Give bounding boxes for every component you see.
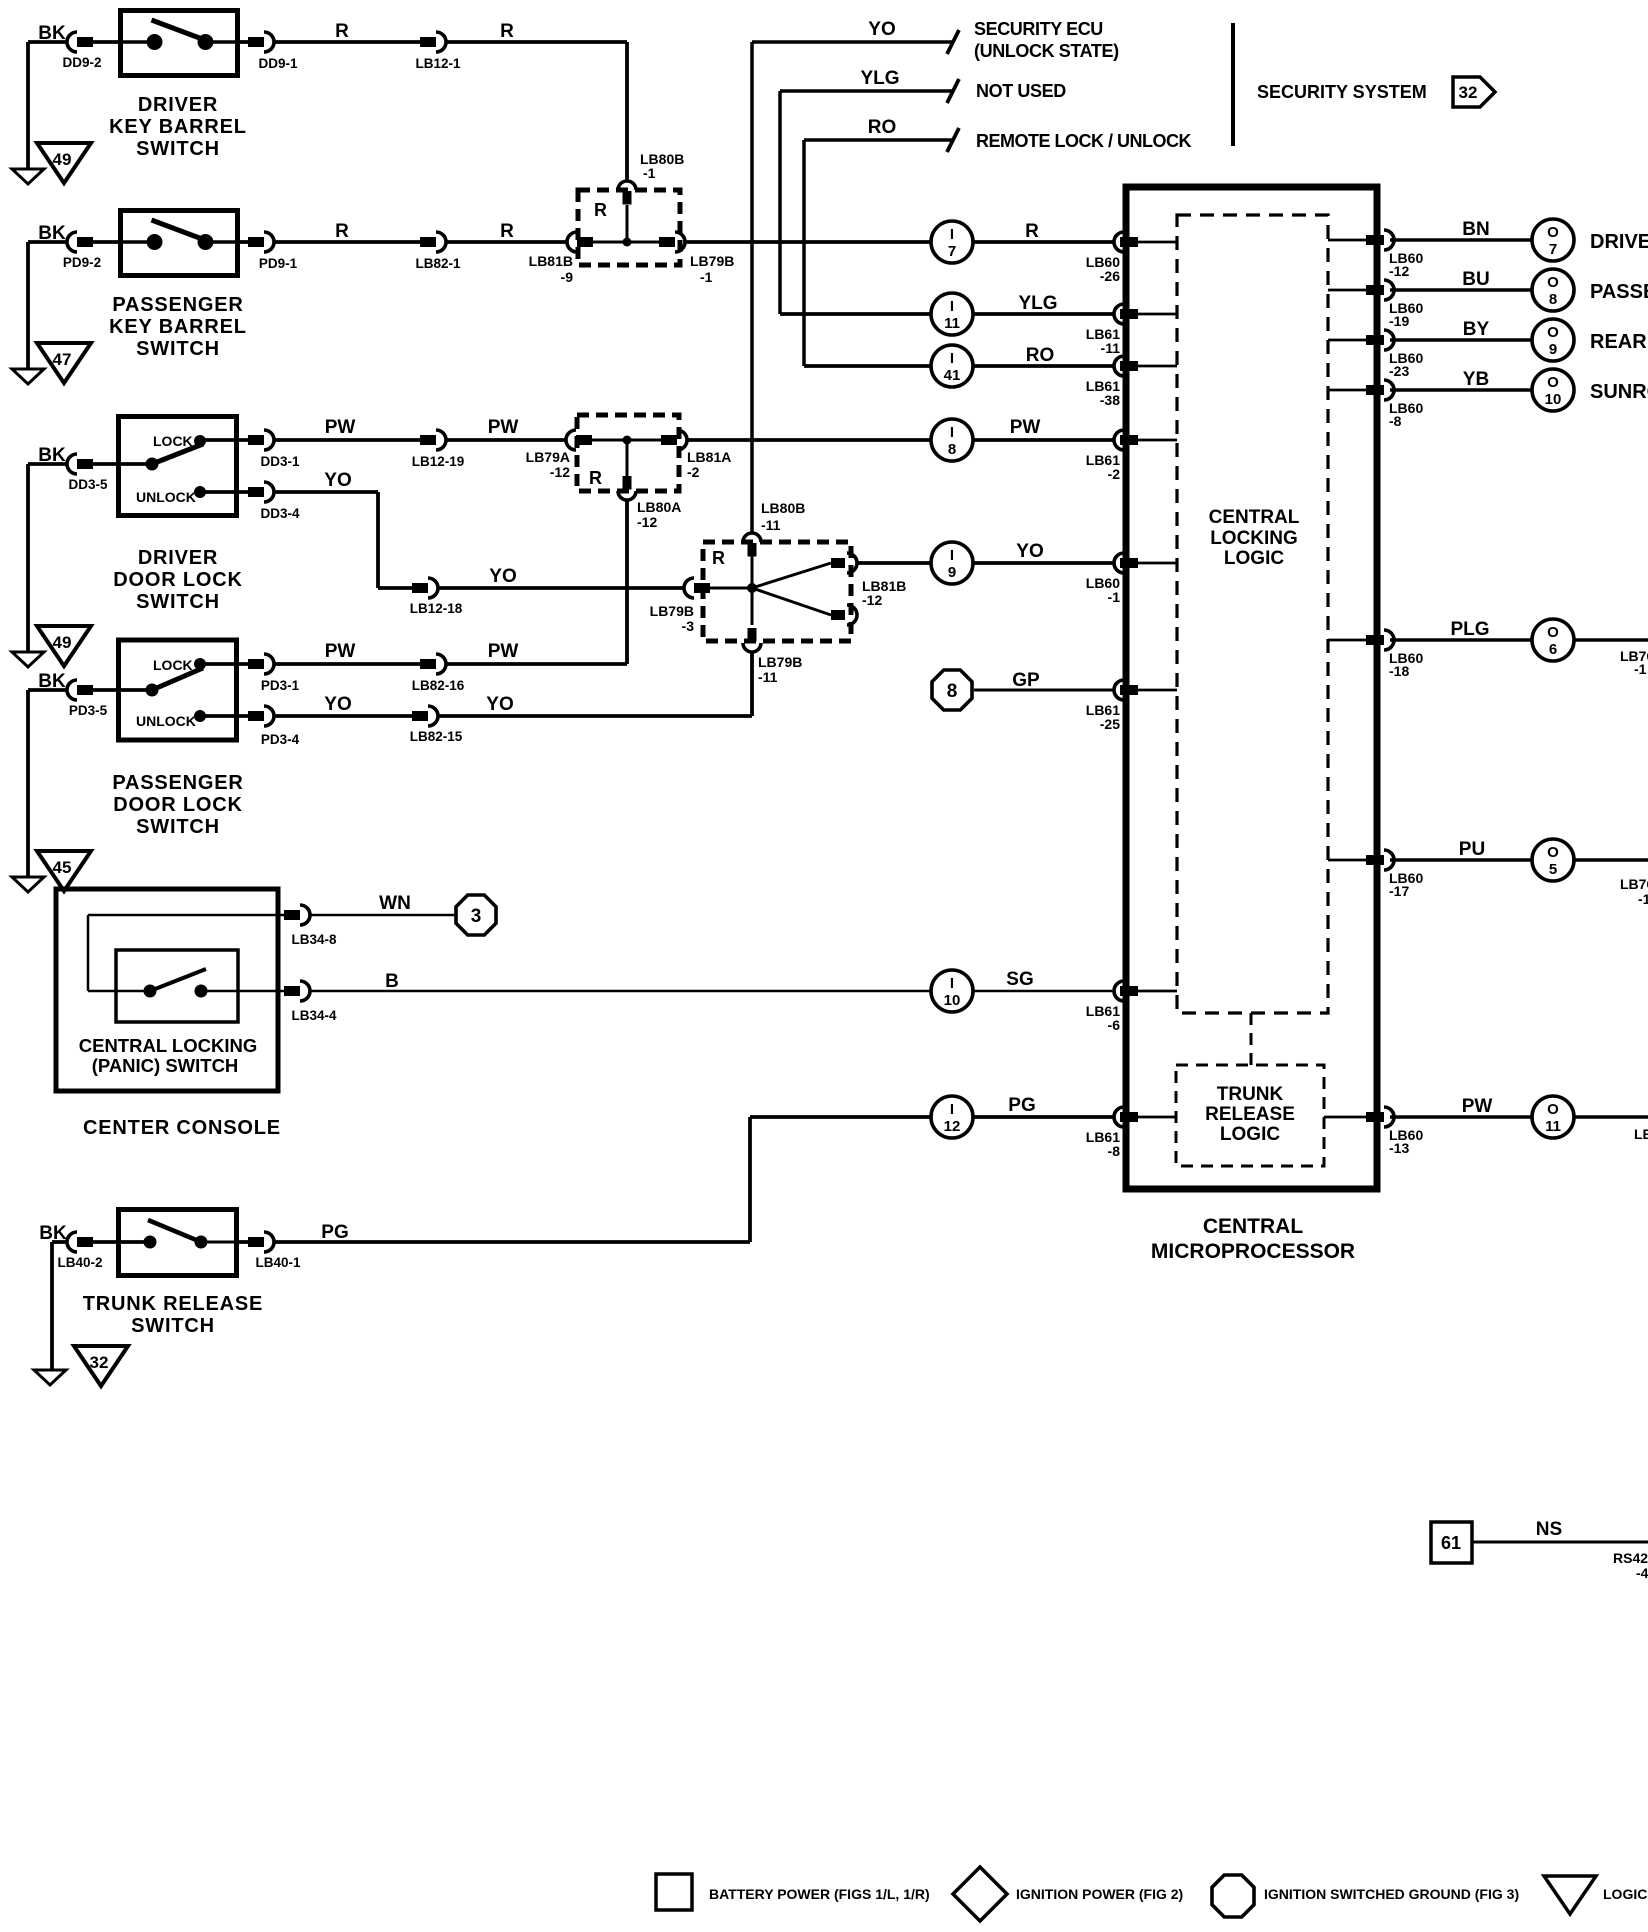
svg-text:R: R: [1025, 221, 1039, 242]
svg-text:-2: -2: [687, 464, 700, 480]
svg-text:SUNROOF: SUNROOF: [1590, 381, 1648, 403]
svg-text:LB34-4: LB34-4: [291, 1008, 337, 1023]
svg-text:PD9-1: PD9-1: [259, 256, 298, 271]
svg-text:NS: NS: [1536, 1519, 1562, 1540]
svg-text:49: 49: [53, 633, 72, 652]
svg-text:DOOR LOCK: DOOR LOCK: [113, 794, 242, 816]
svg-text:I: I: [950, 547, 954, 564]
svg-text:I: I: [950, 975, 954, 992]
svg-text:BATTERY POWER (FIGS 1/L, 1/R): BATTERY POWER (FIGS 1/L, 1/R): [709, 1886, 930, 1902]
svg-text:-11: -11: [1101, 340, 1121, 356]
svg-text:LOCK: LOCK: [153, 657, 193, 673]
svg-text:-2: -2: [1108, 466, 1121, 482]
svg-text:TRUNK RELEASE: TRUNK RELEASE: [83, 1293, 263, 1315]
svg-text:NOT USED: NOT USED: [976, 81, 1066, 101]
svg-text:BN: BN: [1462, 219, 1489, 240]
svg-text:32: 32: [1459, 83, 1478, 102]
svg-text:LB34-8: LB34-8: [291, 932, 337, 947]
svg-text:PG: PG: [321, 1222, 348, 1243]
svg-text:LB81B: LB81B: [529, 253, 573, 269]
svg-text:6: 6: [1549, 641, 1557, 658]
svg-text:O: O: [1547, 324, 1559, 341]
svg-text:3: 3: [471, 906, 482, 927]
svg-text:RELEASE: RELEASE: [1205, 1104, 1295, 1125]
svg-text:I: I: [950, 424, 954, 441]
svg-text:CENTRAL LOCKING: CENTRAL LOCKING: [79, 1035, 258, 1056]
svg-text:LB12-1: LB12-1: [415, 56, 461, 71]
svg-text:PASSENGER: PASSENGER: [112, 294, 243, 316]
svg-text:R: R: [335, 221, 349, 242]
svg-text:R: R: [500, 21, 514, 42]
svg-text:PU: PU: [1459, 839, 1485, 860]
svg-text:-12: -12: [637, 514, 657, 530]
svg-text:-38: -38: [1100, 392, 1120, 408]
svg-text:PASSENGER: PASSENGER: [112, 772, 243, 794]
svg-text:LOGIC GROUND (FIG 4): LOGIC GROUND (FIG 4): [1603, 1886, 1648, 1902]
svg-text:DRIVER: DRIVER: [1590, 231, 1648, 253]
svg-text:YO: YO: [868, 19, 895, 40]
svg-text:DD9-2: DD9-2: [62, 55, 101, 70]
svg-text:PW: PW: [488, 417, 519, 438]
svg-text:YLG: YLG: [1018, 293, 1057, 314]
svg-text:-18: -18: [1389, 663, 1409, 679]
svg-text:R: R: [589, 468, 602, 488]
svg-text:LB12-19: LB12-19: [412, 454, 465, 469]
svg-text:LB76: LB76: [1620, 876, 1648, 892]
svg-text:45: 45: [53, 858, 72, 877]
svg-text:KEY BARREL: KEY BARREL: [109, 316, 247, 338]
svg-text:41: 41: [944, 367, 961, 384]
svg-text:IGNITION POWER (FIG 2): IGNITION POWER (FIG 2): [1016, 1886, 1183, 1902]
svg-text:SWITCH: SWITCH: [136, 816, 220, 838]
svg-text:DD3-4: DD3-4: [260, 506, 300, 521]
svg-text:PD3-4: PD3-4: [261, 732, 300, 747]
svg-text:O: O: [1547, 844, 1559, 861]
svg-text:-23: -23: [1389, 363, 1409, 379]
svg-text:MICROPROCESSOR: MICROPROCESSOR: [1151, 1240, 1355, 1263]
svg-text:-8: -8: [1108, 1143, 1121, 1159]
svg-text:O: O: [1547, 224, 1559, 241]
svg-text:LB81A: LB81A: [687, 449, 731, 465]
svg-text:SWITCH: SWITCH: [131, 1315, 215, 1337]
svg-text:LB79A: LB79A: [526, 449, 570, 465]
svg-text:7: 7: [1549, 241, 1557, 258]
svg-text:I: I: [950, 298, 954, 315]
svg-text:-1: -1: [700, 269, 713, 285]
svg-text:-12: -12: [550, 464, 570, 480]
svg-text:O: O: [1547, 274, 1559, 291]
svg-text:B: B: [385, 971, 399, 992]
svg-text:-17: -17: [1389, 883, 1409, 899]
svg-text:11: 11: [1545, 1118, 1561, 1135]
svg-text:(PANIC) SWITCH: (PANIC) SWITCH: [92, 1055, 239, 1076]
svg-text:7: 7: [948, 243, 956, 260]
svg-text:DD3-1: DD3-1: [260, 454, 300, 469]
svg-text:PD3-5: PD3-5: [69, 703, 108, 718]
svg-text:LB82-1: LB82-1: [415, 256, 461, 271]
svg-text:PD9-2: PD9-2: [63, 255, 101, 270]
svg-text:BY: BY: [1463, 319, 1490, 340]
svg-text:SG: SG: [1006, 969, 1033, 990]
svg-text:DOOR LOCK: DOOR LOCK: [113, 569, 242, 591]
svg-text:YO: YO: [1016, 541, 1043, 562]
svg-text:BU: BU: [1462, 269, 1489, 290]
svg-text:-12: -12: [862, 592, 882, 608]
svg-text:I: I: [950, 1101, 954, 1118]
svg-text:R: R: [500, 221, 514, 242]
svg-text:10: 10: [1545, 391, 1562, 408]
svg-text:O: O: [1547, 624, 1559, 641]
svg-text:GP: GP: [1012, 670, 1040, 691]
svg-text:LOCK: LOCK: [153, 433, 193, 449]
svg-text:-6: -6: [1108, 1017, 1121, 1033]
svg-text:REMOTE LOCK / UNLOCK: REMOTE LOCK / UNLOCK: [976, 131, 1191, 151]
svg-text:UNLOCK: UNLOCK: [136, 713, 196, 729]
svg-text:CENTER CONSOLE: CENTER CONSOLE: [83, 1117, 281, 1139]
svg-text:-12: -12: [1389, 263, 1409, 279]
svg-text:11: 11: [944, 315, 960, 332]
svg-text:UNLOCK: UNLOCK: [136, 489, 196, 505]
svg-text:8: 8: [1549, 291, 1557, 308]
svg-text:PD3-1: PD3-1: [261, 678, 300, 693]
svg-text:-25: -25: [1100, 716, 1120, 732]
svg-text:-1: -1: [1108, 589, 1121, 605]
svg-text:PG: PG: [1008, 1095, 1035, 1116]
svg-text:SWITCH: SWITCH: [136, 138, 220, 160]
svg-text:TRUNK: TRUNK: [1217, 1084, 1284, 1105]
svg-text:PW: PW: [1010, 417, 1041, 438]
svg-text:YB: YB: [1463, 369, 1489, 390]
svg-text:10: 10: [944, 992, 961, 1009]
svg-text:47: 47: [53, 350, 72, 369]
svg-text:5: 5: [1549, 861, 1557, 878]
svg-text:O: O: [1547, 374, 1559, 391]
svg-text:SECURITY ECU: SECURITY ECU: [974, 19, 1103, 39]
svg-text:WN: WN: [379, 893, 411, 914]
svg-text:(UNLOCK STATE): (UNLOCK STATE): [974, 41, 1119, 61]
svg-text:RS422: RS422: [1613, 1550, 1648, 1566]
svg-text:LB40-1: LB40-1: [255, 1255, 301, 1270]
svg-text:LB80A: LB80A: [637, 499, 681, 515]
svg-text:DD3-5: DD3-5: [68, 477, 108, 492]
svg-text:-13: -13: [1389, 1140, 1409, 1156]
svg-text:-11: -11: [761, 517, 781, 533]
svg-text:LB76: LB76: [1634, 1126, 1648, 1142]
svg-text:YLG: YLG: [860, 68, 899, 89]
svg-text:DRIVER: DRIVER: [138, 547, 218, 569]
svg-text:-26: -26: [1100, 268, 1120, 284]
svg-text:-1: -1: [1634, 661, 1647, 677]
svg-text:REAR: REAR: [1590, 331, 1647, 353]
svg-text:LB79B: LB79B: [758, 654, 802, 670]
svg-text:PW: PW: [325, 417, 356, 438]
svg-text:8: 8: [948, 441, 956, 458]
svg-text:DRIVER: DRIVER: [138, 94, 218, 116]
svg-text:-8: -8: [1389, 413, 1402, 429]
svg-text:9: 9: [948, 564, 956, 581]
svg-text:O: O: [1547, 1101, 1559, 1118]
svg-text:DD9-1: DD9-1: [258, 56, 298, 71]
svg-text:9: 9: [1549, 341, 1557, 358]
svg-text:LOCKING: LOCKING: [1210, 528, 1298, 549]
svg-text:49: 49: [53, 150, 72, 169]
svg-text:KEY BARREL: KEY BARREL: [109, 116, 247, 138]
svg-text:R: R: [335, 21, 349, 42]
svg-text:LB79B: LB79B: [690, 253, 734, 269]
svg-text:-11: -11: [758, 669, 778, 685]
svg-text:-9: -9: [561, 269, 574, 285]
svg-text:R: R: [594, 200, 607, 220]
svg-text:LB82-16: LB82-16: [412, 678, 465, 693]
svg-text:I: I: [950, 350, 954, 367]
svg-text:PASSENGER: PASSENGER: [1590, 281, 1648, 303]
svg-text:-3: -3: [682, 618, 695, 634]
svg-text:LOGIC: LOGIC: [1224, 548, 1284, 569]
svg-text:12: 12: [944, 1118, 961, 1135]
svg-text:-1: -1: [643, 165, 656, 181]
svg-text:YO: YO: [324, 470, 351, 491]
svg-text:LB40-2: LB40-2: [57, 1255, 102, 1270]
svg-text:RO: RO: [1026, 345, 1055, 366]
svg-text:LOGIC: LOGIC: [1220, 1124, 1280, 1145]
svg-text:32: 32: [90, 1353, 109, 1372]
svg-text:LB79B: LB79B: [650, 603, 694, 619]
svg-text:PW: PW: [488, 641, 519, 662]
svg-text:-1: -1: [1638, 891, 1648, 907]
svg-text:YO: YO: [489, 566, 516, 587]
svg-text:61: 61: [1441, 1533, 1461, 1553]
svg-text:RO: RO: [868, 117, 897, 138]
svg-text:R: R: [712, 548, 725, 568]
svg-text:YO: YO: [486, 694, 513, 715]
svg-text:YO: YO: [324, 694, 351, 715]
svg-text:PLG: PLG: [1450, 619, 1489, 640]
svg-text:I: I: [950, 226, 954, 243]
svg-text:SWITCH: SWITCH: [136, 591, 220, 613]
svg-text:LB12-18: LB12-18: [410, 601, 463, 616]
svg-text:CENTRAL: CENTRAL: [1203, 1215, 1303, 1238]
svg-text:-42: -42: [1636, 1565, 1648, 1581]
svg-text:IGNITION SWITCHED GROUND (FIG: IGNITION SWITCHED GROUND (FIG 3): [1264, 1886, 1519, 1902]
svg-text:PW: PW: [325, 641, 356, 662]
svg-text:CENTRAL: CENTRAL: [1209, 507, 1300, 528]
svg-text:LB80B: LB80B: [761, 500, 805, 516]
svg-text:-19: -19: [1389, 313, 1409, 329]
svg-text:SECURITY SYSTEM: SECURITY SYSTEM: [1257, 82, 1427, 102]
svg-text:LB82-15: LB82-15: [410, 729, 463, 744]
svg-text:PW: PW: [1462, 1096, 1493, 1117]
svg-text:8: 8: [947, 681, 958, 702]
svg-text:SWITCH: SWITCH: [136, 338, 220, 360]
